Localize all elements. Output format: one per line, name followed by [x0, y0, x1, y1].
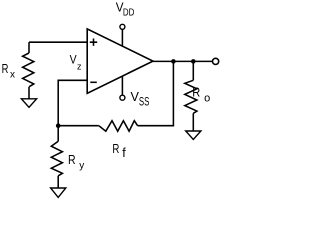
output terminal: [213, 58, 219, 64]
power VSS terminal: [120, 95, 125, 100]
wire VSS to op-amp: [121, 76, 123, 95]
svg-text:SS: SS: [139, 95, 150, 109]
wire - input feedback: [58, 80, 87, 125]
ground (Ry): [51, 188, 66, 197]
svg-text:y: y: [79, 161, 84, 172]
wire Ro to ground: [192, 113, 194, 131]
label Rx: [2, 61, 15, 80]
svg-text:x: x: [10, 69, 15, 80]
resistor Rx: [23, 53, 34, 87]
svg-text:DD: DD: [123, 6, 135, 18]
label Ry: [68, 152, 84, 172]
svg-text:R: R: [2, 61, 9, 76]
svg-text:o: o: [204, 93, 210, 105]
wire node C to Ro: [192, 61, 194, 80]
wire Rx to ground: [28, 87, 30, 99]
power VDD terminal: [120, 24, 125, 29]
node A (junction Ry/Rf): [56, 123, 61, 128]
resistor Ry: [51, 141, 62, 176]
wire output: [153, 60, 212, 62]
node C (Ro tap): [191, 59, 196, 64]
svg-text:R: R: [192, 84, 200, 99]
wire VDD to op-amp: [121, 29, 123, 46]
svg-text:R: R: [112, 141, 119, 156]
svg-text:z: z: [77, 62, 82, 72]
label Ro: [192, 84, 210, 104]
svg-text:R: R: [68, 152, 76, 167]
svg-text:V: V: [70, 53, 77, 67]
wire + input: [29, 42, 87, 53]
wire junction to Rf: [58, 125, 99, 127]
ground (Rx): [21, 99, 36, 108]
node B (feedback tap): [171, 59, 176, 64]
resistor Rf: [99, 121, 138, 132]
label Vz: [70, 53, 82, 72]
ground (Ro): [186, 131, 201, 140]
wire Ry to ground: [57, 176, 59, 188]
resistor Ro: [185, 80, 197, 113]
op-amp U1: [87, 29, 153, 93]
label VDD: [116, 0, 135, 18]
resistor Ry wire from junction: [57, 126, 59, 142]
svg-text:f: f: [122, 146, 126, 160]
wire Rf to output node: [138, 61, 174, 125]
label Rf: [112, 141, 126, 160]
label VSS: [131, 89, 150, 109]
